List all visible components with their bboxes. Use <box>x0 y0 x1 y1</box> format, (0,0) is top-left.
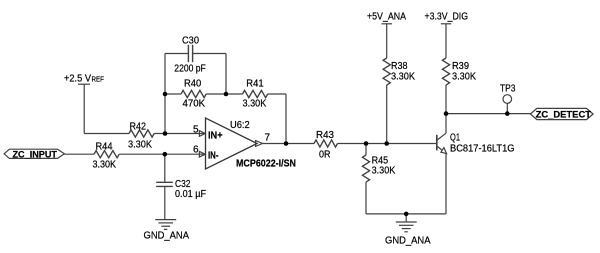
svg-text:R44: R44 <box>96 141 113 152</box>
svg-text:IN+: IN+ <box>208 131 223 142</box>
svg-text:3.30K: 3.30K <box>372 166 396 177</box>
svg-text:GND_ANA: GND_ANA <box>385 236 431 247</box>
svg-text:REF: REF <box>92 75 105 84</box>
svg-text:R43: R43 <box>316 130 334 141</box>
svg-text:3.30K: 3.30K <box>93 159 117 170</box>
svg-text:R42: R42 <box>130 121 147 132</box>
svg-text:3.30K: 3.30K <box>243 98 267 109</box>
svg-text:GND_ANA: GND_ANA <box>144 230 190 241</box>
svg-text:Q1: Q1 <box>450 132 460 143</box>
svg-text:R41: R41 <box>246 78 264 89</box>
svg-text:+3.3V_DIG: +3.3V_DIG <box>425 12 469 23</box>
svg-text:+5V_ANA: +5V_ANA <box>367 12 406 23</box>
svg-text:3.30K: 3.30K <box>128 139 152 150</box>
svg-text:C30: C30 <box>182 36 199 47</box>
svg-text:ZC_INPUT: ZC_INPUT <box>13 150 58 161</box>
svg-text:0R: 0R <box>319 150 331 161</box>
svg-text:TP3: TP3 <box>500 83 516 94</box>
svg-text:2200 pF: 2200 pF <box>174 63 206 74</box>
svg-text:ZC_DETECT: ZC_DETECT <box>536 109 592 120</box>
svg-text:R40: R40 <box>184 78 202 89</box>
svg-text:3.30K: 3.30K <box>452 71 476 82</box>
svg-text:0.01 µF: 0.01 µF <box>175 189 206 200</box>
svg-text:5: 5 <box>193 124 199 135</box>
svg-text:IN-: IN- <box>208 151 219 162</box>
svg-text:+2.5 V: +2.5 V <box>64 74 91 85</box>
svg-text:MCP6022-I/SN: MCP6022-I/SN <box>236 158 296 169</box>
svg-text:6: 6 <box>193 145 199 156</box>
svg-text:7: 7 <box>265 132 271 143</box>
svg-text:3.30K: 3.30K <box>391 71 415 82</box>
svg-text:BC817-16LT1G: BC817-16LT1G <box>450 143 515 154</box>
svg-text:470K: 470K <box>183 98 206 109</box>
svg-text:U6:2: U6:2 <box>230 120 250 131</box>
